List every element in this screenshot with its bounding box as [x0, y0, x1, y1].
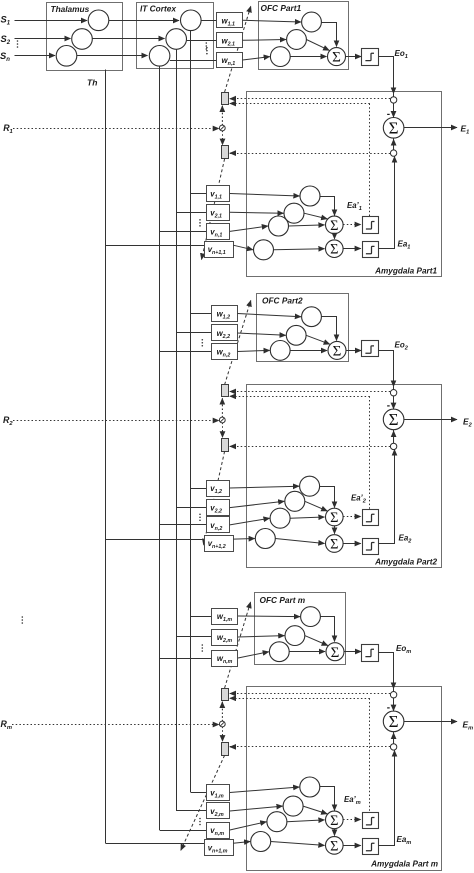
node circle on Eo line — [390, 390, 396, 396]
OFC neuron 3 — [270, 47, 290, 67]
box OFC Part1 — [259, 2, 349, 70]
amygdala neuron 2 — [284, 203, 304, 223]
Ea threshold unit (group m) — [363, 839, 379, 855]
wire node to main sum minus input — [393, 103, 395, 117]
OFC neuron 2 — [287, 30, 307, 50]
wire trunk to weight box V2,2 — [177, 507, 207, 509]
main summing node Em — [383, 711, 404, 732]
wire S2 to thalamus neuron 2 — [15, 38, 71, 40]
wire sum1 to sum2 — [334, 234, 336, 239]
svg-text:Σ: Σ — [330, 536, 338, 552]
svg-text:Σ: Σ — [330, 813, 338, 829]
IT neuron 3 — [149, 46, 170, 67]
wire Rm dotted input — [12, 724, 219, 726]
wire IT neuron3 trunk vertical — [159, 66, 161, 830]
node circle on Eo line — [390, 97, 396, 103]
amygdala summing node 2 — [326, 535, 344, 553]
Ea-prime threshold unit (group m) — [363, 813, 379, 829]
wire Vn,m to amygdala neuron 3 — [230, 822, 267, 830]
box OFC Part2 — [257, 294, 349, 362]
OFC neuron 2 — [285, 626, 305, 646]
wire Wn,2 to OFC neuron 3 — [237, 350, 269, 351]
wire OFC neuron 1 to sum — [322, 317, 337, 341]
wire trunk to weight box Wn,m — [160, 658, 212, 660]
wire V2,1 to amygdala neuron 2 — [230, 211, 284, 214]
amygdala neuron 1 — [300, 186, 320, 206]
dashed wire node down into V-learning element — [222, 423, 224, 438]
wire IT neuron2 trunk vertical — [176, 49, 178, 811]
wire IT neuron1 trunk vertical — [190, 31, 192, 793]
node circle on Ea line — [390, 744, 396, 750]
wire amygdala neuron 2 to sum1 — [304, 213, 327, 219]
main summing node E1 — [383, 118, 404, 139]
amygdala neuron 1 — [300, 777, 320, 797]
svg-text:Σ: Σ — [330, 510, 338, 526]
wire Wn,1 to OFC neuron 3 — [243, 57, 270, 60]
wire trunk to weight box V2,m — [177, 810, 207, 812]
ellipsis between V2,1 and Vn,1 — [199, 219, 201, 227]
dotted feedback Ea to V-learning element — [230, 446, 390, 448]
svg-text:OFC Part1: OFC Part1 — [261, 3, 302, 13]
wire W2,2 to OFC neuron 2 — [237, 333, 285, 335]
svg-text:Σ: Σ — [331, 645, 340, 661]
weight box Wn,m — [212, 651, 238, 667]
wire IT neuron 3 to weight box Wn,1 — [170, 60, 217, 62]
wire trunk to weight box V1,2 — [191, 488, 207, 490]
ellipsis between R2 and Rm — [22, 616, 24, 624]
svg-text:Amygdala Part1: Amygdala Part1 — [374, 267, 437, 276]
wire amygdala neuron 4 to sum2 — [275, 539, 324, 544]
weight box V1,1 — [207, 186, 230, 202]
wire trunk to weight box Vn,1 — [160, 231, 207, 233]
wire amygdala neuron 2 to sum1 — [305, 501, 328, 511]
ellipsis inside IT Cortex — [206, 42, 208, 50]
wire W1,1 to OFC neuron 1 — [243, 20, 301, 22]
wire V2,2 to amygdala neuron 2 — [230, 501, 284, 507]
dashed wire node up into W-learning element — [222, 106, 224, 126]
wire Vn+1,m to amygdala neuron 4 — [233, 842, 250, 844]
wire trunk to weight box V1,m — [191, 792, 207, 794]
learning gain element for W weights (group m) — [222, 689, 229, 701]
svg-text:Th: Th — [87, 78, 97, 88]
wire Vn,1 to amygdala neuron 3 — [230, 226, 268, 231]
wire main sum to E1 output — [404, 127, 457, 129]
dashed wire node up into W-learning element — [222, 398, 224, 417]
wire sum1 to sum2 — [334, 829, 336, 836]
weight box V1,m — [207, 785, 230, 801]
wire trunk to weight box Vn,m — [160, 830, 207, 832]
wire amygdala neuron 3 to sum1 — [290, 517, 324, 518]
dotted vertical Ea-prime feedback — [369, 698, 371, 812]
wire trunk to weight box W1,2 — [191, 313, 212, 315]
dashed wire sum1 to Ea-prime threshold — [343, 224, 361, 226]
Ea threshold unit (group 2) — [363, 539, 379, 555]
IT neuron 2 — [166, 29, 187, 50]
wire OFC neuron 1 to sum — [322, 23, 337, 47]
wire Eo2 down to node — [379, 351, 394, 387]
amygdala summing node 2 — [326, 240, 344, 258]
wire Th trunk vertical — [105, 70, 107, 844]
thalamus neuron 2 — [72, 29, 93, 50]
weight box W1,1 — [217, 13, 243, 28]
ellipsis between W2,m and Wn,m — [202, 644, 204, 652]
wire trunk to weight box W2,m — [177, 636, 212, 638]
svg-text:IT Cortex: IT Cortex — [140, 4, 176, 14]
box Amygdala Partm — [247, 687, 442, 871]
weight box W1,m — [212, 609, 238, 625]
dashed diagonal to V weights (learning) — [202, 159, 225, 260]
wire IT neuron 1 to weight box W1,1 — [201, 20, 216, 22]
svg-text:Σ: Σ — [332, 50, 341, 66]
wire amygdala neuron 1 to sum1 — [320, 487, 335, 508]
main summing node E2 — [383, 409, 404, 430]
weight box Vn+1,m — [205, 840, 234, 856]
wire Eo1 down to node — [379, 57, 394, 94]
dashed wire node up into W-learning element — [222, 702, 224, 722]
wire thalamus 2 to IT neuron 2 — [92, 38, 164, 40]
amygdala neuron 2 — [283, 796, 303, 816]
learning gain element for V weights (group m) — [222, 743, 229, 756]
amygdala summing node 1 — [326, 508, 344, 526]
ellipsis between W2,2 and Wn,2 — [202, 339, 204, 347]
svg-text:Amygdala Part m: Amygdala Part m — [370, 860, 438, 869]
wire Eom down to node — [379, 653, 394, 689]
wire Ea up into main sum — [393, 732, 395, 744]
ellipsis between V2,m and Vn,m — [199, 818, 201, 826]
dashed diagonal to V weights (learning) — [204, 451, 225, 545]
wire OFC neuron 3 to sum — [289, 651, 325, 653]
wire Ea2 up to node — [379, 450, 395, 544]
amygdala neuron 4 — [255, 529, 275, 549]
svg-text:Σ: Σ — [389, 410, 399, 429]
wire thalamus 1 to IT neuron 1 — [109, 20, 179, 22]
wire trunk to weight box Vn+1,1 — [106, 245, 205, 247]
svg-text:Amygdala Part2: Amygdala Part2 — [374, 558, 437, 567]
OFC threshold unit (Eom) — [362, 645, 379, 662]
wire amygdala neuron 1 to sum1 — [321, 197, 335, 216]
wire IT neuron 2 to weight box W2,1 — [187, 40, 217, 42]
box Thalamus — [47, 3, 123, 71]
dotted feedback Ea-prime to W-learning element — [230, 103, 370, 105]
wire S1 to thalamus neuron 1 — [15, 20, 88, 22]
wire node to main sum minus input — [393, 698, 395, 711]
svg-text:OFC Part m: OFC Part m — [260, 595, 306, 605]
wire R2 dotted input — [13, 420, 219, 422]
wire main sum to E2 output — [404, 419, 457, 421]
dashed diagonal to W weights (learning) — [225, 6, 251, 92]
wire OFC sum to threshold — [346, 56, 362, 58]
amygdala summing node 1 — [326, 216, 344, 234]
svg-text:Σ: Σ — [330, 242, 338, 258]
amygdala neuron 2 — [285, 491, 305, 511]
wire trunk to weight box Vn,2 — [160, 524, 207, 526]
svg-text:Σ: Σ — [330, 838, 338, 854]
dashed diagonal to V weights (learning) — [181, 755, 225, 850]
weight box V2,m — [207, 803, 230, 819]
OFC summing node Sigma — [326, 643, 344, 661]
wire trunk to weight box Wn,2 — [160, 351, 212, 353]
learning gain element for W weights (group 1) — [222, 93, 229, 105]
wire R1 dotted input — [13, 128, 219, 130]
wire amygdala neuron 1 to sum1 — [320, 787, 335, 811]
weight box V2,2 — [207, 500, 230, 516]
wire V2,m to amygdala neuron 2 — [230, 806, 283, 811]
wire Vn,2 to amygdala neuron 3 — [230, 518, 270, 525]
node circle on Eo line — [390, 692, 396, 698]
Ea threshold unit (group 1) — [363, 242, 379, 258]
dashed wire sum1 to Ea-prime threshold — [343, 819, 361, 821]
OFC threshold unit (Eo2) — [362, 341, 379, 357]
wire W1,2 to OFC neuron 1 — [237, 314, 301, 317]
wire trunk to weight box V1,1 — [191, 193, 207, 195]
dotted feedback Ea-prime to W-learning element — [230, 698, 370, 700]
R1 multiplier node — [219, 125, 225, 131]
wire Ea up into main sum — [393, 138, 395, 150]
svg-text:Σ: Σ — [389, 119, 399, 138]
amygdala summing node 1 — [326, 811, 344, 829]
weight box W2,2 — [212, 325, 238, 341]
box IT Cortex — [137, 3, 214, 69]
dotted feedback Ea-prime to W-learning element — [230, 396, 370, 398]
wire V1,m to amygdala neuron 1 — [230, 787, 299, 793]
wire Sn to thalamus neuron 3 — [15, 55, 56, 57]
thalamus neuron 3 — [56, 46, 77, 67]
weight box Vn,2 — [207, 517, 230, 533]
wire Ea1 up to node — [379, 157, 395, 249]
wire trunk to weight box V2,1 — [177, 212, 207, 214]
weight box Vn+1,2 — [205, 536, 234, 552]
learning gain element for W weights (group 2) — [222, 385, 229, 397]
Ea-prime threshold unit (group 1) — [363, 217, 379, 234]
weight box Wn,2 — [212, 344, 238, 360]
amygdala neuron 3 — [269, 216, 289, 236]
wire OFC neuron 2 to sum — [305, 636, 328, 646]
amygdala neuron 3 — [270, 508, 290, 528]
amygdala neuron 4 — [254, 240, 274, 260]
ellipsis between V2,2 and Vn,2 — [199, 513, 201, 521]
OFC neuron 2 — [286, 325, 306, 345]
wire node to main sum minus input — [393, 396, 395, 409]
wire main sum to Em output — [404, 721, 457, 723]
OFC summing node Sigma — [328, 48, 346, 66]
dotted feedback Eo to W-learning element — [232, 693, 390, 695]
dotted feedback Eo to W-learning element — [232, 98, 390, 100]
dotted vertical Ea-prime feedback — [369, 104, 371, 217]
OFC neuron 1 — [302, 12, 322, 32]
wire thalamus 3 to IT neuron 3 — [77, 55, 148, 57]
wire amygdala neuron 3 to sum1 — [289, 225, 325, 226]
amygdala summing node 2 — [326, 837, 344, 855]
OFC neuron 3 — [270, 341, 290, 361]
svg-text:Σ: Σ — [333, 344, 342, 360]
wire OFC sum to threshold — [344, 651, 361, 653]
OFC summing node Sigma — [328, 341, 346, 359]
box OFC Part m — [255, 593, 346, 665]
wire trunk to weight box Vn+1,m — [106, 843, 205, 845]
weight box W1,2 — [212, 306, 238, 322]
wire amygdala neuron 4 to sum2 — [271, 842, 325, 846]
ellipsis between S2 and Sn — [17, 40, 19, 48]
box Amygdala Part2 — [247, 385, 442, 568]
amygdala neuron 1 — [300, 476, 320, 496]
Ea-prime threshold unit (group 2) — [363, 510, 379, 526]
ellipsis between W2,1 and Wn,1 — [206, 47, 208, 55]
wire Ea up into main sum — [393, 430, 395, 443]
weight box Vn,m — [207, 823, 230, 839]
wire OFC neuron 2 to sum — [306, 40, 329, 51]
svg-text:Σ: Σ — [330, 218, 338, 234]
svg-text:Thalamus: Thalamus — [51, 4, 90, 14]
wire amygdala neuron 4 to sum2 — [274, 249, 325, 250]
node circle on Ea line — [390, 150, 396, 156]
dotted vertical Ea-prime feedback — [369, 396, 371, 510]
weight box V1,2 — [207, 481, 230, 497]
wire OFC neuron 3 to sum — [290, 350, 327, 352]
dashed wire node down into V-learning element — [222, 131, 224, 145]
node circle on Ea line — [390, 443, 396, 449]
weight box Vn,1 — [207, 224, 230, 240]
OFC neuron 3 — [269, 642, 289, 662]
wire Eam up to node — [379, 751, 395, 846]
dotted feedback Ea to V-learning element — [230, 746, 390, 748]
wire OFC sum to threshold — [346, 350, 361, 352]
dashed wire sum1 to Ea-prime threshold — [343, 516, 361, 518]
OFC neuron 1 — [302, 307, 322, 327]
wire OFC neuron 3 to sum — [290, 56, 326, 58]
wire sum2 to Ea threshold — [343, 543, 361, 545]
svg-text:Σ: Σ — [389, 712, 399, 731]
wire OFC neuron 1 to sum — [321, 617, 335, 642]
weight box V2,1 — [207, 205, 230, 221]
dotted feedback Ea to V-learning element — [230, 153, 390, 155]
wire trunk to weight box W1,m — [191, 616, 212, 618]
dotted feedback Eo to W-learning element — [232, 391, 390, 393]
wire Vn+1,1 to amygdala neuron 4 — [233, 245, 253, 250]
wire trunk to weight box Vn+1,2 — [106, 539, 205, 541]
wire amygdala neuron 2 to sum1 — [303, 806, 327, 814]
svg-text:OFC Part2: OFC Part2 — [262, 296, 303, 306]
box Amygdala Part1 — [247, 92, 442, 277]
R2 multiplier node — [219, 417, 225, 423]
amygdala neuron 4 — [251, 832, 271, 852]
wire W1,m to OFC neuron 1 — [238, 615, 300, 618]
weight box Vn+1,1 — [205, 242, 234, 258]
wire sum2 to Ea threshold — [343, 845, 361, 847]
weight box Wn,1 — [217, 53, 243, 68]
wire sum1 to sum2 — [334, 526, 336, 534]
wire Wn,m to OFC neuron 3 — [238, 652, 269, 658]
dashed wire node down into V-learning element — [222, 727, 224, 742]
OFC neuron 1 — [301, 607, 321, 627]
OFC threshold unit (Eo1) — [362, 49, 379, 66]
IT neuron 1 — [181, 10, 202, 31]
dashed diagonal to W weights (learning) — [225, 300, 251, 384]
dashed diagonal to W weights (learning) — [225, 602, 251, 688]
wire trunk to weight box W2,2 — [177, 332, 212, 334]
wire sum2 to Ea threshold — [343, 248, 361, 250]
learning gain element for V weights (group 1) — [222, 146, 229, 159]
learning gain element for V weights (group 2) — [222, 439, 229, 452]
wire Vn+1,2 to amygdala neuron 4 — [233, 538, 255, 541]
wire W2,1 to OFC neuron 2 — [243, 39, 286, 42]
wire OFC neuron 2 to sum — [306, 335, 330, 344]
weight box W2,1 — [217, 33, 243, 48]
wire V1,1 to amygdala neuron 1 — [230, 194, 300, 197]
wire amygdala neuron 3 to sum1 — [287, 820, 325, 822]
weight box W2,m — [212, 630, 238, 646]
wire W2,m to OFC neuron 2 — [238, 636, 284, 637]
wire V1,2 to amygdala neuron 1 — [230, 486, 299, 488]
amygdala neuron 3 — [267, 812, 287, 832]
thalamus neuron 1 — [88, 10, 109, 31]
Rm multiplier node — [219, 721, 225, 727]
